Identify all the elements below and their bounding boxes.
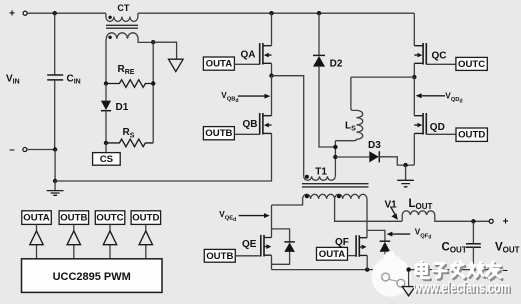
junction CIN top <box>53 11 57 15</box>
svg-text:OUTA: OUTA <box>206 59 233 70</box>
junction output ground <box>406 267 410 271</box>
svg-text:RS: RS <box>123 127 135 139</box>
watermark CJK text <box>416 262 502 280</box>
svg-text:LOUT: LOUT <box>409 198 433 211</box>
OUTB output box (PWM) <box>59 211 89 225</box>
junction CT secondary right <box>151 40 155 44</box>
wire QF drain <box>366 230 368 237</box>
svg-text:VIN: VIN <box>6 74 20 86</box>
svg-text:www.elecfans.com: www.elecfans.com <box>412 281 510 297</box>
buffer OUTA <box>30 224 43 258</box>
svg-text:CT: CT <box>117 3 129 13</box>
resistor RS <box>106 139 153 147</box>
OUTB gate-drive box (QB) <box>203 127 234 140</box>
node Vout- terminal <box>489 265 508 276</box>
wire RS to CS <box>105 143 107 153</box>
OUTA gate-drive box (QF) <box>317 247 348 260</box>
diode QE body <box>272 229 295 264</box>
svg-text:UCC2895 PWM: UCC2895 PWM <box>53 271 131 283</box>
buffer OUTD <box>139 224 152 258</box>
OUTD output box (PWM) <box>131 211 161 225</box>
IC U1 UCC2895 PWM <box>22 259 163 293</box>
watermark logo disc <box>372 251 412 297</box>
arrow VQBd <box>238 94 271 99</box>
diode D2 <box>313 13 335 147</box>
junction COUT bottom <box>471 267 475 271</box>
arrow VQEd <box>239 213 270 218</box>
junction D3 ground <box>403 163 407 167</box>
svg-text:LS: LS <box>345 121 356 133</box>
svg-text:OUTB: OUTB <box>205 128 232 139</box>
wire top rail <box>138 12 414 14</box>
transistor QD <box>414 113 426 135</box>
svg-text:D1: D1 <box>116 102 129 113</box>
svg-text:–: – <box>9 145 15 156</box>
wire QD gate to OUTD <box>426 133 456 135</box>
diode QF body <box>367 230 390 269</box>
ground output (open triangle) <box>402 270 415 296</box>
svg-text:OUTD: OUTD <box>458 130 485 141</box>
transistor QA <box>260 43 272 65</box>
wire OUTA to QA gate <box>234 63 259 65</box>
junction RRE left <box>104 81 108 85</box>
arrow VQDd <box>416 93 445 98</box>
wire QF source <box>366 255 368 269</box>
svg-text:QA: QA <box>241 50 256 61</box>
wire T1 center tap to LOUT <box>335 199 403 221</box>
resistor RRE <box>106 80 153 88</box>
transformer CT <box>106 13 153 42</box>
wire QD drain <box>413 77 415 116</box>
inductor LS <box>335 77 362 141</box>
svg-text:QD: QD <box>430 122 445 133</box>
wire QA drain <box>271 13 273 46</box>
wire QC source to node B <box>413 63 415 77</box>
svg-text:OUTD: OUTD <box>132 213 159 224</box>
arrow V1 <box>390 206 398 220</box>
svg-text:QF: QF <box>335 237 349 248</box>
svg-text:V1: V1 <box>385 200 398 211</box>
wire ground rail to QB source <box>55 133 271 181</box>
wire QC drain <box>413 13 415 46</box>
ground input <box>47 181 64 195</box>
junction Vin- <box>53 147 57 151</box>
junction RS left <box>104 141 108 145</box>
junction ground rail left <box>53 179 57 183</box>
node Vin- terminal <box>9 145 27 156</box>
transistor QE <box>261 235 272 257</box>
node B junction <box>412 75 416 79</box>
svg-text:OUTC: OUTC <box>458 59 485 70</box>
svg-text:D2: D2 <box>330 59 343 70</box>
svg-text:D3: D3 <box>368 140 381 151</box>
junction QA drain rail <box>269 11 273 15</box>
wire CT secondary right down <box>152 42 154 143</box>
OUTC gate-drive box (QC) <box>456 57 487 70</box>
svg-text:VQDd: VQDd <box>445 92 462 105</box>
svg-text:OUTB: OUTB <box>60 213 87 224</box>
svg-text:OUTC: OUTC <box>96 213 123 224</box>
wire QE drain to T1 <box>271 205 273 238</box>
svg-text:RRE: RRE <box>118 64 135 76</box>
wire CT secondary left down <box>105 39 107 84</box>
wire QB drain <box>271 76 273 116</box>
junction D2 rail <box>317 11 321 15</box>
junction QF source rail <box>365 267 369 271</box>
svg-text:CIN: CIN <box>67 74 81 86</box>
wire QA source <box>271 63 273 75</box>
OUTA output box (PWM) <box>22 211 52 225</box>
buffer OUTB <box>67 224 80 258</box>
OUTD gate-drive box (QD) <box>456 128 487 141</box>
wire clamp node vertical <box>334 141 336 177</box>
ground arrow (open triangle) <box>169 59 184 71</box>
watermark url text <box>412 281 511 299</box>
svg-text:T1: T1 <box>315 166 327 177</box>
wire to arrow symbol <box>153 42 176 59</box>
OUTB gate-drive box (QE) <box>204 249 235 262</box>
buffer OUTC <box>103 224 116 258</box>
wire QE source <box>271 255 273 269</box>
capacitor COUT <box>466 221 481 269</box>
wire QD source <box>413 133 415 165</box>
wire node B to LS <box>351 76 414 78</box>
arrow VQFd <box>387 232 411 237</box>
junction clamp D2 <box>333 145 337 149</box>
inductor LOUT <box>402 211 489 221</box>
svg-text:+: + <box>9 9 15 20</box>
svg-text:OUTA: OUTA <box>319 249 346 260</box>
OUTA gate-drive box (QA) <box>203 57 234 70</box>
capacitor CIN <box>47 13 63 149</box>
svg-text:VQEd: VQEd <box>219 210 236 223</box>
svg-text:CS: CS <box>100 154 114 165</box>
svg-text:VQFd: VQFd <box>415 228 432 241</box>
wire QC gate to OUTC <box>426 63 456 65</box>
svg-text:–: – <box>502 265 508 276</box>
svg-text:QB: QB <box>243 119 258 130</box>
wire OUTB to QE gate <box>235 255 260 257</box>
transistor QC <box>414 43 426 65</box>
ground D3/QD <box>397 165 414 187</box>
junction clamp D3 <box>333 155 337 159</box>
wire output bottom rail <box>272 269 490 271</box>
wire Vin+ to CT <box>27 12 106 14</box>
svg-text:OUTB: OUTB <box>206 251 233 262</box>
transformer T1 <box>272 175 369 205</box>
svg-text:QC: QC <box>432 50 447 61</box>
svg-text:QE: QE <box>242 239 257 250</box>
wire OUTA to QF gate <box>348 255 357 257</box>
wire node A to T1 primary <box>272 76 304 177</box>
svg-text:COUT: COUT <box>442 241 467 254</box>
junction RRE right <box>151 81 155 85</box>
svg-text:+: + <box>503 217 509 228</box>
node Vout+ terminal <box>489 217 508 228</box>
transistor QF <box>356 235 367 257</box>
wire CIN to ground rail <box>54 150 56 182</box>
wire Vin- <box>27 149 55 151</box>
diode D1 <box>101 84 111 143</box>
svg-text:VQBd: VQBd <box>221 91 238 104</box>
node Vin+ terminal <box>9 9 27 20</box>
svg-text:VOUT: VOUT <box>495 241 520 254</box>
wire OUTB to QB gate <box>234 133 259 135</box>
OUTC output box (PWM) <box>95 211 125 225</box>
transistor QB <box>260 113 272 135</box>
diode D3 <box>335 151 414 165</box>
svg-text:OUTA: OUTA <box>23 213 50 224</box>
wire T1 right to QF drain <box>366 199 368 231</box>
node A junction <box>269 74 273 78</box>
junction COUT top <box>471 219 475 223</box>
CS block <box>93 153 121 166</box>
